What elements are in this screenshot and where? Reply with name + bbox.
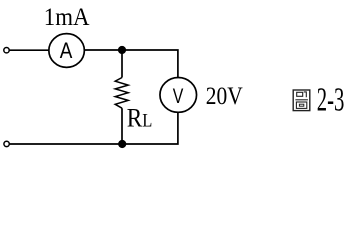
svg-text:V: V bbox=[173, 84, 184, 108]
wire ammeter to node bbox=[85, 49, 122, 51]
wire node to top-right corner and down bbox=[122, 50, 178, 78]
junction node bottom bbox=[118, 140, 126, 148]
ammeter A bbox=[49, 34, 85, 68]
voltmeter V bbox=[160, 78, 197, 113]
terminal bottom-left bbox=[4, 141, 9, 146]
wire top-left to ammeter bbox=[9, 49, 48, 51]
caption glyph tu (figure) bbox=[293, 90, 310, 111]
wire bottom node to terminal bbox=[9, 143, 122, 145]
wire resistor to bottom node bbox=[121, 108, 123, 144]
svg-text:A: A bbox=[60, 38, 73, 63]
svg-text:1mA: 1mA bbox=[44, 2, 90, 31]
junction node top bbox=[118, 46, 126, 54]
wire node down to resistor bbox=[121, 50, 123, 78]
wire voltmeter to bottom-right corner bbox=[122, 112, 178, 144]
resistor RL bbox=[115, 78, 128, 109]
terminal top-left bbox=[4, 48, 9, 53]
svg-text:2-3: 2-3 bbox=[317, 82, 345, 119]
svg-text:20V: 20V bbox=[206, 81, 243, 110]
